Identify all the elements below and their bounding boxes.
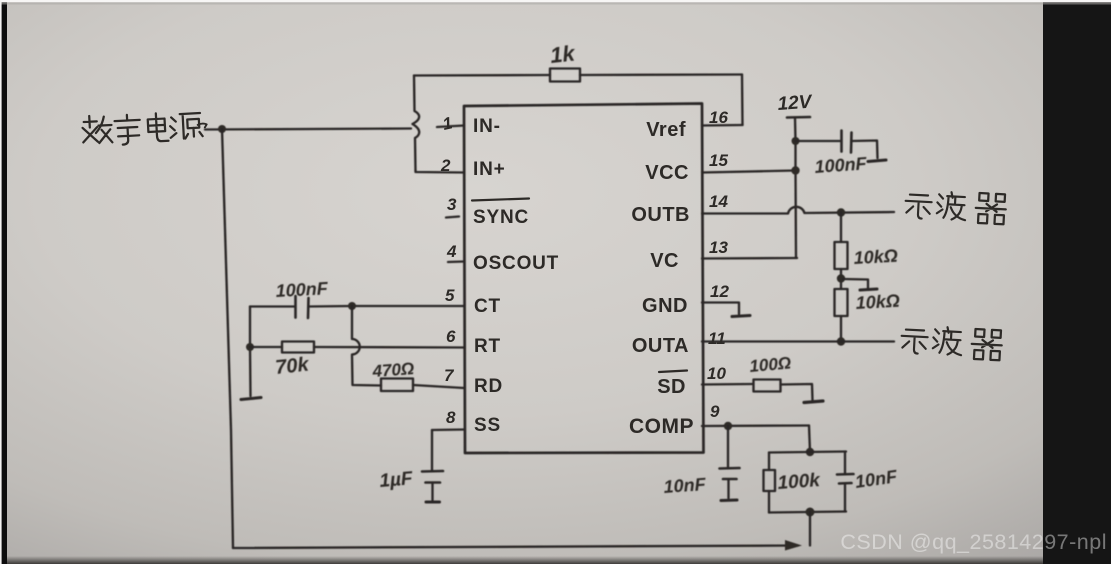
wire: CT junction down with hop over RT wire to 470: [352, 306, 381, 386]
wire: GND pin12: [702, 303, 739, 315]
svg-text:6: 6: [446, 327, 456, 346]
net label: 示波器 (oscilloscope, OUTB): [905, 189, 1007, 224]
wire: VC pin13 to 12V rail: [702, 257, 797, 260]
wire: OUTB junction down to divider: [840, 213, 842, 243]
wire: VCC pin15 to 12V rail: [702, 171, 795, 173]
svg-text:CT: CT: [474, 296, 501, 317]
resistor 70k: [282, 342, 314, 353]
svg-text:OSCOUT: OSCOUT: [473, 253, 559, 274]
svg-text:100nF: 100nF: [814, 153, 868, 177]
pin numbers: [440, 108, 729, 427]
wire: RC left leg upper: [768, 453, 770, 471]
svg-text:Vref: Vref: [646, 119, 686, 141]
svg-text:13: 13: [709, 238, 728, 257]
node: 12V/VCC junction: [791, 166, 799, 174]
svg-text:RT: RT: [474, 336, 501, 357]
wire: 1k feedback loop left vertical with hop over input wire: [413, 76, 420, 171]
wire: 1uF lower lead: [431, 483, 433, 501]
resistor 1k: [550, 69, 580, 82]
capacitor 1uF: [422, 471, 443, 483]
resistor 470ohm: [381, 379, 413, 392]
svg-text:VCC: VCC: [645, 162, 689, 184]
capacitor 10nF (COMP to gnd): [720, 468, 740, 479]
resistor 100ohm: [754, 380, 781, 392]
svg-text:COMP: COMP: [629, 415, 694, 438]
wire: between divider resistors: [840, 269, 842, 289]
svg-text:100k: 100k: [777, 470, 822, 494]
wire: cap lower lead: [727, 480, 729, 499]
svg-text:100nF: 100nF: [275, 278, 329, 301]
svg-text:2: 2: [440, 156, 451, 175]
node: OUTA junction: [837, 337, 845, 345]
wire: COMP junction down to 10nF: [727, 426, 729, 467]
ground (1uF): [426, 501, 440, 504]
wire: RC top rail: [769, 452, 846, 453]
svg-text:15: 15: [709, 151, 728, 170]
trailing dash of label: [198, 123, 207, 127]
node: COMP junction: [724, 422, 732, 430]
svg-text:OUTA: OUTA: [632, 335, 689, 357]
resistor 10k (lower): [835, 289, 848, 316]
svg-text:9: 9: [710, 402, 720, 421]
pin 4 stub: [448, 260, 464, 263]
svg-text:1µF: 1µF: [379, 468, 415, 492]
svg-text:CSDN @qq_25814297-npl: CSDN @qq_25814297-npl: [840, 530, 1107, 554]
capacitor 10nF (RC): [837, 474, 854, 484]
wire: COMP to RC network: [809, 426, 810, 453]
wire: bottom return rail: [233, 546, 798, 549]
node: RT/cap junction: [246, 343, 254, 351]
svg-text:OUTB: OUTB: [631, 204, 690, 226]
node: divider mid junction: [837, 274, 845, 282]
svg-text:SYNC: SYNC: [473, 207, 529, 228]
wire: RT pin6 net: [250, 346, 282, 348]
wire: CT pin5 net: [309, 305, 464, 308]
wire: SS down to 1uF: [431, 430, 433, 470]
wire arrowhead on bottom rail: [785, 540, 802, 551]
wire: 12V vertical rail down to VC: [795, 118, 796, 258]
IC U1 SG3525 body: [464, 104, 704, 454]
ground (divider mid stub): [860, 289, 877, 290]
svg-text:3: 3: [447, 195, 457, 214]
wire: cap to ground: [852, 141, 878, 159]
node: RC bottom junction: [806, 508, 815, 517]
node: CT junction: [348, 302, 356, 310]
wire: COMP pin9 net: [702, 424, 809, 427]
wire: RD pin7 stub: [413, 385, 464, 388]
svg-text:5: 5: [445, 286, 455, 305]
wire: top loop horizontal right of R 1k: [580, 73, 742, 76]
node: OUTB junction: [837, 208, 845, 216]
svg-text:70k: 70k: [274, 354, 310, 379]
node: input junction dot: [218, 125, 226, 133]
pin 3 stub: [446, 217, 459, 218]
svg-text:SD: SD: [657, 376, 686, 398]
svg-text:4: 4: [446, 242, 457, 261]
svg-text:11: 11: [708, 329, 726, 348]
wire: Vref pin 16 stub: [702, 124, 743, 127]
capacitor 100nF (VCC decoupling): [842, 131, 852, 153]
wire: SS pin8 net: [432, 428, 464, 431]
svg-text:14: 14: [709, 192, 728, 211]
svg-text:RD: RD: [474, 376, 503, 397]
wire: divider mid stub: [843, 279, 868, 288]
capacitor 100nF (CT): [296, 296, 309, 318]
ground (CT/RT net): [241, 398, 261, 400]
wire: OUTA pin11 to scope: [702, 340, 894, 342]
svg-text:100Ω: 100Ω: [749, 353, 792, 376]
wire: RC left leg lower: [768, 491, 770, 513]
svg-text:12V: 12V: [777, 92, 814, 115]
ground (COMP 10nF): [721, 499, 737, 503]
svg-text:12: 12: [710, 282, 729, 301]
svg-text:VC: VC: [650, 250, 679, 272]
wire: RC right leg upper: [844, 452, 846, 475]
svg-text:10kΩ: 10kΩ: [855, 291, 900, 313]
resistor 10k (upper): [835, 242, 848, 269]
svg-text:GND: GND: [642, 295, 688, 317]
svg-text:470Ω: 470Ω: [371, 359, 415, 381]
wire: IN- pin 1 stub: [437, 126, 464, 128]
resistor 100k: [764, 470, 776, 491]
wire: OUTB pin14 with hop over 12V rail: [702, 207, 894, 214]
ground (decoupling cap): [868, 160, 886, 162]
wire: IN+ pin 2 connection: [416, 171, 465, 173]
node: 12V/100nF junction: [792, 137, 800, 145]
wire: RC bottom to return rail: [809, 512, 811, 546]
svg-text:10kΩ: 10kΩ: [853, 246, 898, 268]
svg-text:10: 10: [707, 364, 726, 383]
wire: input net to IN-: [205, 129, 411, 130]
wire: to decoupling cap: [796, 140, 841, 142]
svg-text:IN-: IN-: [473, 116, 501, 137]
wire: left vertical rail: [222, 129, 233, 548]
wire: CT cap left lead: [250, 305, 295, 307]
svg-text:16: 16: [709, 108, 728, 127]
ground (GND pin12): [732, 316, 750, 317]
wire: SD pin10 to 100ohm: [702, 383, 752, 386]
power: 12V bar: [787, 116, 810, 119]
wire: divider bottom to OUTA net: [840, 316, 842, 342]
wire: loop right vertical down to Vref: [741, 75, 744, 126]
IC pin name labels: [472, 116, 559, 436]
ground (100ohm): [804, 401, 823, 403]
node label: 数字电源 (digital power) handwritten: [82, 110, 208, 147]
wire: top loop horizontal left of R 1k: [414, 74, 550, 77]
svg-text:7: 7: [444, 366, 455, 385]
node: RC top junction: [806, 448, 814, 456]
wire: RC bottom rail: [769, 512, 846, 513]
svg-text:1k: 1k: [549, 40, 578, 68]
svg-text:10nF: 10nF: [663, 474, 707, 497]
net label: 示波器 (oscilloscope, OUTA): [901, 325, 1003, 360]
svg-text:IN+: IN+: [473, 159, 506, 180]
wire: RC right leg lower: [844, 484, 846, 512]
wire: 100ohm to ground: [781, 384, 813, 400]
svg-text:8: 8: [446, 408, 456, 427]
wire: CT left vertical to ground: [249, 307, 252, 397]
svg-text:SS: SS: [474, 415, 501, 436]
